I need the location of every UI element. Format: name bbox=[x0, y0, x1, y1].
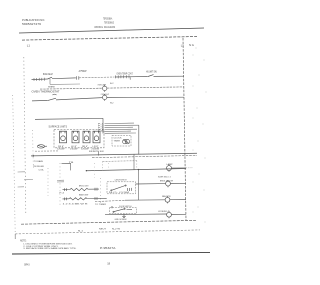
fan wire 1 bbox=[105, 122, 135, 124]
surface element E3 bbox=[83, 131, 90, 143]
svg-text:BROIL UNIT: BROIL UNIT bbox=[79, 185, 89, 187]
left border bus wire bbox=[13, 95, 16, 239]
svg-text:2100W: 2100W bbox=[70, 148, 78, 150]
bottom border wire bbox=[15, 230, 200, 234]
bottom row wire bbox=[105, 213, 167, 216]
svg-text:BAKE UNIT: BAKE UNIT bbox=[79, 194, 89, 197]
svg-text:CLOCK: CLOCK bbox=[114, 138, 123, 140]
svg-text:SURFACE UNITS: SURFACE UNITS bbox=[49, 126, 68, 129]
bus A arrow end bbox=[31, 155, 34, 157]
wire row3 mid bbox=[56, 98, 102, 100]
svg-text:PUBLICATION NO.: PUBLICATION NO. bbox=[22, 19, 45, 22]
svg-text:NOTE:: NOTE: bbox=[20, 240, 27, 242]
surface element E2 bbox=[72, 131, 79, 143]
relay switch row3 bbox=[48, 98, 56, 100]
timer motor M bbox=[123, 139, 130, 143]
svg-text:TO BAKE: TO BAKE bbox=[34, 160, 44, 163]
surface element E4 bbox=[93, 131, 100, 143]
vertical bus A to bus B bbox=[133, 154, 135, 170]
box side wires bbox=[102, 161, 104, 171]
svg-text:18: 18 bbox=[107, 262, 110, 266]
lamp B5 bbox=[167, 211, 172, 218]
clock timer box bbox=[112, 135, 131, 146]
svg-text:SURF. IND. LT.: SURF. IND. LT. bbox=[158, 176, 171, 178]
svg-text:GR43: GR43 bbox=[24, 265, 30, 267]
wattage labels under elements bbox=[57, 148, 99, 150]
fan motor M3 bbox=[165, 196, 170, 203]
left L2 bus wire bbox=[24, 57, 26, 214]
wire lamp5 to bus bbox=[171, 213, 186, 215]
lamp B2 bbox=[103, 85, 107, 92]
svg-text:P-95327A: P-95327A bbox=[100, 247, 116, 250]
fan wire 2 bbox=[105, 124, 139, 126]
wire row1 left bbox=[32, 78, 48, 81]
broiler wire to motor bbox=[136, 183, 166, 185]
scan noise dots bbox=[193, 48, 207, 223]
diagram top border wire bbox=[22, 37, 197, 41]
left bottom corner stub bbox=[14, 234, 16, 239]
labels under elements bbox=[58, 146, 99, 148]
svg-text:OVEN TEMP CONT.: OVEN TEMP CONT. bbox=[117, 74, 134, 76]
vertical stub under surface box bbox=[98, 152, 100, 156]
feed wire bbox=[35, 118, 103, 119]
connector hatches row1 bbox=[116, 75, 131, 80]
svg-text:NEUT: NEUT bbox=[99, 229, 107, 231]
wire dashed under fuse bbox=[35, 150, 58, 152]
svg-text:P-5: P-5 bbox=[98, 131, 104, 133]
L corner wire bbox=[62, 164, 71, 171]
junction drop below switch bbox=[49, 79, 51, 84]
bus A2 wire dashed bbox=[92, 155, 197, 157]
terminal hatches row1 left bbox=[34, 78, 44, 81]
wire row2 left bbox=[40, 87, 102, 90]
svg-text:TEF350BUD: TEF350BUD bbox=[104, 21, 114, 24]
wire row1 mid bbox=[52, 77, 76, 80]
svg-text:N-2 W: N-2 W bbox=[112, 228, 120, 230]
fuse oval bbox=[37, 145, 47, 148]
svg-text:TB RELAY: TB RELAY bbox=[33, 165, 45, 168]
svg-text:TO TIMER: TO TIMER bbox=[95, 204, 107, 206]
left inner bus wire bbox=[32, 130, 35, 168]
door switch S2 bbox=[113, 208, 132, 212]
right N bus wire bbox=[183, 38, 186, 221]
bus B wire bbox=[86, 169, 186, 171]
label clock bbox=[114, 138, 123, 143]
switch row1 bbox=[48, 77, 52, 79]
collector wire down bbox=[138, 125, 140, 154]
switch hi-limit bbox=[148, 75, 154, 77]
terminal pair row1 bbox=[77, 76, 79, 79]
box top wire dashed bbox=[103, 160, 137, 163]
vertical dashed x94 bbox=[93, 163, 95, 178]
publication number text block bbox=[22, 19, 45, 26]
svg-text:5995327476: 5995327476 bbox=[22, 23, 42, 26]
wire lamp to bus bbox=[172, 167, 187, 169]
junction dot bus B bbox=[86, 170, 87, 171]
svg-text:OVEN THERMOSTAT: OVEN THERMOSTAT bbox=[32, 91, 61, 94]
vertical dashed x108.7 bbox=[108, 163, 110, 171]
model number text bbox=[103, 17, 114, 24]
vertical dashed x60 bbox=[59, 163, 61, 205]
wire to fan left bbox=[95, 200, 125, 201]
labels under bottom bus bbox=[78, 228, 120, 232]
wire motor to bus bbox=[170, 182, 186, 184]
wire row3 left bbox=[32, 99, 48, 102]
note block bbox=[20, 240, 77, 250]
vertical bus B to fan row bbox=[138, 170, 140, 200]
fan wire 4 bbox=[105, 128, 138, 130]
junction stub bbox=[111, 206, 113, 208]
svg-text:TEF350BUA: TEF350BUA bbox=[103, 17, 112, 20]
vertical dashed x48 bbox=[47, 168, 49, 196]
wire row3 right bbox=[107, 96, 184, 98]
feed drop wire bbox=[102, 118, 104, 133]
fan wire 6 bbox=[105, 132, 137, 134]
bus A wire bbox=[31, 153, 197, 156]
ground symbol bbox=[122, 214, 126, 217]
bottom N bus wire bbox=[21, 220, 196, 224]
junction dot bus B2 bbox=[138, 169, 139, 170]
wire to fan bbox=[125, 199, 165, 201]
fan wire 3 bbox=[105, 126, 134, 128]
relay contact arc bbox=[53, 93, 57, 96]
svg-text:N.O. COM: N.O. COM bbox=[109, 192, 130, 194]
svg-text:2750W: 2750W bbox=[78, 70, 88, 73]
surface element E1 bbox=[60, 131, 67, 143]
svg-text:N G: N G bbox=[189, 44, 194, 47]
bottom rule bbox=[12, 252, 210, 254]
vertical dashed x100.5 bbox=[100, 178, 102, 205]
wire row2 right bbox=[107, 87, 184, 88]
svg-text:INFINITE SW.: INFINITE SW. bbox=[89, 151, 104, 153]
wire fan to bus bbox=[170, 199, 186, 201]
surface units box bbox=[54, 129, 104, 147]
wire row1 to bus bbox=[154, 75, 185, 77]
header rule bbox=[19, 28, 204, 33]
lamp B4 bbox=[167, 164, 172, 171]
wire row1 right bbox=[115, 76, 148, 79]
labels left of bus A bbox=[33, 160, 45, 168]
wire row1 mid2 bbox=[79, 76, 115, 79]
latch switch S1 bbox=[111, 185, 132, 191]
fan labels bbox=[98, 123, 104, 133]
lamp B3 bbox=[103, 94, 107, 101]
branch wire from relay bbox=[50, 83, 80, 85]
latch switch box bbox=[107, 182, 136, 194]
bake element R2 bbox=[63, 197, 107, 200]
broil element R1 bbox=[63, 188, 100, 191]
svg-text:1250W: 1250W bbox=[81, 148, 89, 150]
svg-text:3. REPLACE WIRE WITH SAME SIZE: 3. REPLACE WIRE WITH SAME SIZE AND TYPE. bbox=[23, 247, 76, 250]
svg-text:SPARK: SPARK bbox=[48, 85, 56, 88]
door switch box bbox=[110, 208, 137, 214]
svg-text:BAKE RELAY: BAKE RELAY bbox=[43, 73, 53, 76]
svg-text:HI LIMIT SW.: HI LIMIT SW. bbox=[146, 72, 157, 74]
svg-text:COIL: COIL bbox=[39, 169, 45, 171]
svg-text:1 2 3 4 BK W R: 1 2 3 4 BK W R bbox=[63, 204, 89, 206]
svg-text:TIMER: TIMER bbox=[114, 140, 121, 142]
svg-text:WIRING DIAGRAM: WIRING DIAGRAM bbox=[94, 26, 115, 29]
svg-text:GND SCREW: GND SCREW bbox=[115, 219, 127, 221]
svg-text:LATCH SWITCH: LATCH SWITCH bbox=[115, 178, 127, 181]
svg-text:1250W: 1250W bbox=[57, 148, 65, 150]
wire dashes beyond bus bbox=[186, 167, 193, 169]
fan wire 5 bbox=[105, 130, 132, 132]
motor M2 bbox=[166, 180, 171, 187]
